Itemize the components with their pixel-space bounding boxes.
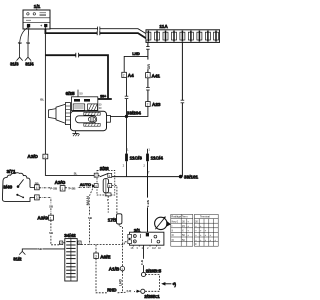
wire label P xyxy=(107,198,110,202)
break symbol xyxy=(125,96,129,99)
wire fuse1 continues to A41 xyxy=(147,56,149,72)
svg-text:SB: SB xyxy=(49,205,53,209)
wire label F-BN (rotated) xyxy=(145,198,150,208)
break symbol xyxy=(146,47,150,50)
svg-text:1: 1 xyxy=(147,74,149,78)
svg-text:P: P xyxy=(107,198,109,202)
wire battery minus to ground 31/4 xyxy=(27,27,30,57)
svg-text:SB: SB xyxy=(26,41,30,45)
wire junction to starter terminal 50 xyxy=(110,115,126,117)
wire LHD branch to A4 xyxy=(124,56,148,72)
svg-text:3: 3 xyxy=(95,255,97,259)
wire A3/G lower to 34/42 (dashed) xyxy=(51,220,60,245)
svg-text:2/28B:1: 2/28B:1 xyxy=(144,294,160,299)
svg-text:2: 2 xyxy=(123,74,125,78)
svg-text:SB: SB xyxy=(49,231,53,235)
svg-text:3: 3 xyxy=(36,196,38,200)
label MAN (rotated) xyxy=(85,194,90,205)
ignition switch assembly 3/1 xyxy=(128,228,164,250)
svg-text:P-SB: P-SB xyxy=(50,186,57,190)
break symbol xyxy=(146,87,150,90)
svg-text:MAN: MAN xyxy=(85,196,90,205)
wire A3/G to relay AUTO (dash-dot) xyxy=(65,186,92,189)
svg-text:1: 1 xyxy=(44,155,46,159)
svg-text:A3/G: A3/G xyxy=(55,180,66,185)
svg-text:SB: SB xyxy=(88,216,92,220)
pin 3 xyxy=(30,196,35,198)
svg-text:A1/B: A1/B xyxy=(109,267,120,272)
fuse 2 xyxy=(155,31,160,42)
fuse 1 xyxy=(146,31,151,42)
wire A4 down to junction 33/204 xyxy=(126,78,128,117)
wire fuse5 down to junction 33/101 xyxy=(181,42,183,176)
battery 1/1 xyxy=(23,4,50,29)
drive pinion cone xyxy=(56,104,65,123)
wire RHD line to 2/28B:1 (dashed) with arrow xyxy=(118,291,138,292)
ground 31/3 xyxy=(10,57,23,66)
connector A3/G (lower) xyxy=(37,215,53,220)
svg-text:*): *) xyxy=(173,282,177,287)
wire 11C/3 down to 33/101 line xyxy=(126,161,128,176)
component 17/1 xyxy=(108,214,122,224)
svg-text:A41: A41 xyxy=(152,73,161,78)
svg-text:Term: Term xyxy=(182,215,188,219)
left pin boxes xyxy=(128,234,132,238)
svg-text:34/42: 34/42 xyxy=(64,233,76,238)
svg-text:4: 4 xyxy=(36,186,38,190)
wire label P-SB xyxy=(50,186,59,191)
wire 3/1 down to 2/28B:5 xyxy=(143,245,145,272)
junction 33/204 xyxy=(125,110,141,118)
wire junction down to 11C/3 xyxy=(126,116,128,153)
wire label F-R xyxy=(126,289,134,293)
junction 33/101 xyxy=(179,175,199,180)
wire pin3 to A3/G lower (dash-dot) xyxy=(39,197,51,215)
fuse 7 xyxy=(197,31,202,42)
svg-text:A3/D: A3/D xyxy=(27,154,38,159)
wire battery to fuse box (thick) xyxy=(45,29,146,38)
wire A41 down to A23 xyxy=(147,78,149,102)
wire A6/E down to RHD line (dashed) xyxy=(96,258,107,292)
terminal tab 50 xyxy=(107,115,111,122)
svg-text:P-SB: P-SB xyxy=(69,186,76,190)
svg-text:33/101: 33/101 xyxy=(184,175,198,180)
wire ground 31/2 to 34/42 xyxy=(22,249,65,252)
wire label SB xyxy=(88,216,92,220)
wire A6/E stub (dashed) xyxy=(95,245,97,253)
connector 11C/3 xyxy=(123,147,143,167)
svg-text:1F: 1F xyxy=(158,246,161,250)
break symbol xyxy=(97,31,100,35)
svg-text:2/28B:5: 2/28B:5 xyxy=(146,269,162,274)
svg-text:31/4: 31/4 xyxy=(25,61,34,66)
svg-text:31/3: 31/3 xyxy=(10,61,19,66)
pin 2 left xyxy=(60,241,63,245)
svg-text:1: 1 xyxy=(62,187,64,191)
svg-text:RHD: RHD xyxy=(107,288,116,293)
pin 4 xyxy=(30,186,35,188)
ground (starter) xyxy=(72,131,79,137)
wire battery plus down to A3/D xyxy=(44,27,46,154)
svg-text:BL: BL xyxy=(40,97,44,101)
pin 1 right xyxy=(78,241,81,245)
svg-text:SL: SL xyxy=(74,172,78,176)
fuse box 11A xyxy=(146,24,220,42)
svg-text:31/2: 31/2 xyxy=(13,257,22,262)
connector A23 xyxy=(146,102,161,107)
break symbol xyxy=(76,53,79,58)
svg-text:SB: SB xyxy=(38,247,42,251)
svg-text:AUTO: AUTO xyxy=(80,182,91,187)
ignition key symbol xyxy=(155,217,171,230)
svg-text:F-R: F-R xyxy=(140,260,144,265)
brush tower xyxy=(65,103,70,125)
svg-text:50: 50 xyxy=(79,92,83,96)
svg-text:6/25: 6/25 xyxy=(66,91,75,96)
svg-text:GR: GR xyxy=(147,64,151,70)
fuse 3 xyxy=(163,31,168,42)
ground 31/2 xyxy=(13,251,25,261)
relay 2/28 xyxy=(94,166,115,197)
field winding bottom hatched xyxy=(84,123,100,126)
svg-text:F-BN: F-BN xyxy=(146,200,150,207)
wire label BL xyxy=(40,97,45,102)
wire B+ battery to starter (thick) xyxy=(45,55,108,98)
svg-text:+: + xyxy=(40,24,42,28)
wire pin4 to A3/G (dash-dot) xyxy=(39,187,60,189)
solenoid winding hatched xyxy=(88,104,98,110)
svg-text:SB: SB xyxy=(18,41,22,45)
wire color label GR (rotated) xyxy=(145,60,150,70)
connector A4 xyxy=(122,72,134,78)
wire fuse1 down to LHD tee xyxy=(147,42,149,56)
pin boxes xyxy=(94,173,98,177)
wire A3/D down and right to relay 2/28 xyxy=(45,159,94,176)
svg-text:33/204: 33/204 xyxy=(127,110,141,115)
svg-text:2: 2 xyxy=(147,103,149,107)
resistor ladder 34/42 xyxy=(60,233,82,281)
svg-text:30+: 30+ xyxy=(100,94,106,98)
ground 31/4 xyxy=(25,57,34,66)
wire relay coil down (dashed) xyxy=(107,196,109,213)
wire A23 down and left to junction 33/204 xyxy=(127,106,148,116)
svg-text:11C/4: 11C/4 xyxy=(151,156,164,161)
svg-text:Key 0: Key 0 xyxy=(172,220,179,223)
armature capsule xyxy=(76,116,97,123)
svg-text:A4: A4 xyxy=(128,73,134,78)
svg-text:17/1: 17/1 xyxy=(108,218,117,223)
svg-text:A6/E: A6/E xyxy=(100,254,110,259)
wire 17/1 to A1/B (dashed) xyxy=(119,224,122,266)
wire MAN/34-42 dashed horizontal to 3/1 xyxy=(81,242,128,245)
coil xyxy=(103,179,108,193)
fuse 5 xyxy=(180,31,185,42)
connector A3/D xyxy=(27,154,47,159)
svg-text:Rattläge: Rattläge xyxy=(171,215,181,219)
wire label P-SB xyxy=(68,186,77,191)
footnote arrow *) xyxy=(161,282,176,287)
wire label SB xyxy=(38,247,43,251)
connector 2/28B:1 xyxy=(141,289,161,299)
wire battery minus to ground 31/3 xyxy=(20,27,29,57)
break symbol xyxy=(181,100,185,103)
svg-text:3/40: 3/40 xyxy=(3,184,12,189)
wire battery to fuse box (thin top) xyxy=(50,29,146,34)
wire A1/B down to RHD line (dashed) xyxy=(121,271,123,293)
svg-text:1/1: 1/1 xyxy=(34,4,41,9)
svg-text:A23: A23 xyxy=(152,102,161,107)
svg-text:LHD: LHD xyxy=(132,52,140,56)
wire label F-R (rotated) xyxy=(140,259,145,265)
wire relay pin3 to 17/1 (dashed) xyxy=(112,186,117,214)
fuse 8 xyxy=(205,31,210,42)
solenoid contact bar xyxy=(98,98,112,100)
connector A41 xyxy=(146,73,161,79)
break symbol xyxy=(98,27,100,31)
svg-text:1: 1 xyxy=(50,217,52,221)
wire 2/28B:5 to 2/28B:1 (dashed) xyxy=(145,275,159,292)
key position table xyxy=(171,214,218,246)
connector A3/G (upper) xyxy=(55,180,66,191)
field winding top hatched xyxy=(84,112,100,115)
svg-text:F-R: F-R xyxy=(127,289,132,293)
connector 11C/4 xyxy=(143,147,163,167)
connector 2/28B:5 xyxy=(141,269,161,277)
wire label SB xyxy=(49,204,53,208)
connector A6/E xyxy=(94,253,111,259)
motor body xyxy=(71,111,107,130)
label AUTO with arrow xyxy=(80,182,96,188)
starter motor 6/25 xyxy=(48,90,111,131)
wire relay to junction 33/101 xyxy=(112,176,181,178)
svg-text:LHD: LHD xyxy=(118,278,122,286)
switch contact xyxy=(100,173,109,177)
svg-text:11A: 11A xyxy=(159,24,168,29)
label LHD (rotated) xyxy=(118,276,123,286)
fuse 6 xyxy=(188,31,193,42)
ignition switch 3/71 xyxy=(2,169,39,201)
svg-text:Terminal: Terminal xyxy=(200,215,210,219)
fuse 9 xyxy=(214,31,219,42)
fuse 4 xyxy=(172,31,177,42)
wire MAN branch (dashed) xyxy=(90,189,93,245)
wire label SB xyxy=(49,231,53,235)
svg-text:III: III xyxy=(172,234,174,237)
wire 11C/4 down to 3/1 xyxy=(147,161,149,232)
svg-text:A3/G: A3/G xyxy=(37,216,48,221)
svg-text:11C/3: 11C/3 xyxy=(130,156,143,161)
connector A1/B xyxy=(109,266,125,271)
svg-text:IV: IV xyxy=(172,239,175,242)
